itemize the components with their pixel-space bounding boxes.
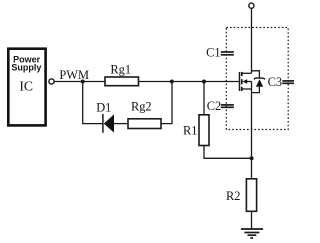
capacitor C1 [221, 52, 234, 55]
wire branch down-left of D1 [83, 82, 103, 124]
capacitor C2 [221, 105, 234, 107]
svg-text:Supply: Supply [11, 62, 41, 72]
wire source rail down [251, 82, 253, 179]
ground [241, 229, 263, 238]
body diode of Q1 [252, 71, 266, 93]
terminal PWM output circle [49, 79, 54, 84]
node R1 tap [202, 80, 206, 84]
channel segment drain [241, 72, 243, 76]
wire drain from top terminal [251, 8, 253, 73]
wire Rg2 up to gate line [161, 82, 172, 124]
resistor R2 [246, 179, 256, 212]
wire PWM terminal to Rg1 [54, 81, 105, 83]
resistor Rg2 [128, 119, 161, 129]
gate bar [239, 72, 241, 91]
channel segment body [241, 79, 243, 84]
svg-text:R2: R2 [226, 189, 240, 203]
svg-text:Rg1: Rg1 [110, 63, 131, 77]
body arrow [242, 79, 247, 84]
wire R2 to ground [251, 211, 253, 228]
wire Rg1 to gate [139, 81, 240, 83]
wire drain stub [243, 72, 252, 74]
IC U1 Power Supply box [8, 49, 45, 126]
resistor R1 [199, 115, 209, 146]
node gate drive split [81, 80, 85, 84]
node source sense [250, 156, 254, 160]
wire arrow to source rail [247, 81, 252, 83]
svg-text:C1: C1 [206, 46, 220, 60]
svg-text:D1: D1 [96, 101, 111, 115]
svg-text:PWM: PWM [59, 68, 89, 82]
transistor Q1 N-channel MOSFET [240, 72, 252, 91]
node Rg2 branch rejoin [170, 80, 174, 84]
terminal drain top circle [249, 3, 254, 8]
svg-text:IC: IC [19, 79, 33, 94]
wire R1 tap down [203, 82, 205, 115]
resistor Rg1 [105, 77, 139, 86]
svg-text:C2: C2 [207, 99, 221, 113]
svg-text:R1: R1 [183, 123, 197, 137]
diode D1 [103, 114, 114, 133]
wire R1 bottom to source rail [204, 146, 252, 159]
capacitor C3 [282, 81, 294, 83]
wire source stub [243, 88, 252, 90]
svg-text:C3: C3 [268, 75, 282, 89]
svg-text:Rg2: Rg2 [131, 100, 152, 114]
channel segment source [241, 87, 243, 91]
dashed outline MOSFET module [226, 28, 288, 130]
wire D1 to Rg2 [114, 123, 128, 125]
